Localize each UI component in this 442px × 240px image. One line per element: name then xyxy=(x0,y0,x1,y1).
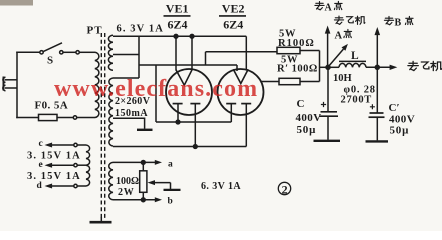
terminal d xyxy=(74,184,77,187)
core ground xyxy=(100,217,102,222)
junction xyxy=(176,120,180,124)
wire HT bottom lead xyxy=(113,146,246,148)
label 去乙机 top xyxy=(334,16,365,24)
junction xyxy=(141,198,145,202)
HT center tap xyxy=(113,118,145,129)
tube VE1 envelope xyxy=(166,69,212,115)
VE1 anode pin 2 xyxy=(191,36,193,70)
winding HT 2x260V xyxy=(109,78,113,146)
label 去A点 xyxy=(315,2,342,10)
resistor R' xyxy=(279,78,300,84)
junction xyxy=(190,34,194,38)
wire R riser xyxy=(205,52,207,65)
switch S xyxy=(40,43,63,54)
VE2 filament left xyxy=(226,103,236,105)
wire bottom xyxy=(16,117,38,119)
wire R-R' vertical xyxy=(319,51,321,82)
svg-text:A: A xyxy=(335,31,343,42)
plus C xyxy=(321,102,326,107)
wire a rail xyxy=(113,161,155,163)
winding 6.3V top xyxy=(108,35,113,70)
svg-text:6. 3V 1A: 6. 3V 1A xyxy=(117,23,164,34)
label A点 xyxy=(344,30,352,38)
VE1 anode pin xyxy=(175,36,177,70)
svg-text:2: 2 xyxy=(282,182,288,196)
wire to switch xyxy=(16,51,40,53)
choke L winding xyxy=(339,63,366,67)
svg-text:R′ 100Ω: R′ 100Ω xyxy=(277,64,318,75)
junction xyxy=(326,65,330,69)
wire filament bottom line xyxy=(156,121,231,123)
VE2 anode V xyxy=(233,69,248,83)
svg-text:50μ: 50μ xyxy=(390,124,410,136)
wire B point up arrow xyxy=(376,35,378,68)
mains plug xyxy=(3,77,17,91)
plus C2 xyxy=(370,104,375,109)
svg-text:6Z4: 6Z4 xyxy=(168,17,188,31)
label circled 2 xyxy=(278,182,290,194)
vertical x139 xyxy=(138,36,140,78)
tap arrow e xyxy=(52,164,74,166)
fuse F0.5A xyxy=(39,114,58,120)
wire y65 line xyxy=(139,64,237,66)
wire xyxy=(79,51,95,53)
svg-text:PT: PT xyxy=(87,25,103,37)
winding 3.15V e-d xyxy=(86,165,90,186)
VE2 anode pin xyxy=(236,65,238,71)
winding 6.3V bottom xyxy=(109,162,113,199)
wire 6.3V mid lead xyxy=(113,54,139,56)
svg-text:2W: 2W xyxy=(118,187,134,198)
ground bar C2 xyxy=(366,140,389,142)
svg-text:d: d xyxy=(37,181,43,191)
svg-text:A: A xyxy=(325,3,333,14)
VE2 cathode side wire xyxy=(261,81,279,83)
svg-text:2700T: 2700T xyxy=(341,94,373,105)
scan artifact top-left bar xyxy=(0,0,33,6)
wire HT top lead xyxy=(113,77,139,79)
label 去B点 xyxy=(384,16,413,24)
tap arrow c xyxy=(52,144,74,146)
svg-text:b: b xyxy=(168,197,173,207)
svg-text:B: B xyxy=(395,18,402,29)
wire diagonal to A xyxy=(328,49,344,67)
wire xyxy=(57,117,73,119)
terminal xyxy=(76,51,79,54)
svg-text:S: S xyxy=(47,55,53,67)
label 去乙机 right xyxy=(408,61,442,70)
VE1 filament left xyxy=(173,103,183,105)
capacitor C2 xyxy=(376,67,378,113)
fraction bar VE1 xyxy=(164,15,191,17)
chassis ground xyxy=(170,183,172,189)
tube VE2 envelope xyxy=(218,69,264,115)
svg-text:VE1: VE1 xyxy=(166,1,189,15)
VE1 filament right xyxy=(190,103,200,105)
wire anode line xyxy=(113,35,246,37)
svg-text:3. 15V 1A: 3. 15V 1A xyxy=(27,150,81,161)
svg-text:www.elecfans.com: www.elecfans.com xyxy=(54,76,258,102)
VE1 anode V xyxy=(176,70,192,85)
fraction bar VE2 xyxy=(219,15,246,17)
wire switch to primary xyxy=(63,51,76,53)
svg-text:6Z4: 6Z4 xyxy=(223,17,243,31)
svg-text:50μ: 50μ xyxy=(297,124,317,136)
ground bar C xyxy=(314,140,341,142)
wiper arrow xyxy=(148,180,156,185)
wire output xyxy=(328,66,339,68)
svg-text:100Ω: 100Ω xyxy=(116,176,139,187)
svg-text:6. 3V 1A: 6. 3V 1A xyxy=(201,181,241,192)
wire xyxy=(77,117,95,119)
choke L core bar xyxy=(339,60,366,62)
svg-text:400V: 400V xyxy=(296,112,322,124)
svg-text:C: C xyxy=(297,98,305,110)
junction xyxy=(193,145,197,149)
wire left vertical xyxy=(16,52,18,119)
resistor 100ohm 2W xyxy=(140,171,147,193)
svg-text:a: a xyxy=(168,160,173,170)
svg-text:L: L xyxy=(351,50,359,62)
ground bar xyxy=(137,129,153,131)
capacitor C xyxy=(327,67,329,111)
VE2 filament right xyxy=(241,103,251,105)
transformer core xyxy=(100,33,102,218)
tap arrow d xyxy=(52,185,74,187)
terminal c xyxy=(74,143,77,146)
wire tee xyxy=(320,66,329,68)
winding 3.15V c-e xyxy=(86,145,90,165)
svg-text:c: c xyxy=(39,139,43,149)
VE2 anode pin 2 xyxy=(245,36,247,70)
terminal xyxy=(73,116,76,119)
svg-text:R100Ω: R100Ω xyxy=(278,38,315,49)
wire xyxy=(300,81,320,83)
svg-text:C′: C′ xyxy=(389,102,400,114)
wire B+ up arrow xyxy=(327,33,329,67)
wire to R xyxy=(206,51,278,53)
junction xyxy=(174,34,178,38)
wire drop x156 xyxy=(155,65,157,122)
svg-text:150mA: 150mA xyxy=(115,108,148,119)
svg-text:10H: 10H xyxy=(333,73,352,84)
junction xyxy=(375,65,379,69)
resistor R xyxy=(277,47,300,53)
junction xyxy=(141,161,145,165)
svg-text:VE2: VE2 xyxy=(222,1,245,15)
wire xyxy=(300,50,320,52)
wire b rail xyxy=(113,199,155,201)
svg-text:3. 15V 1A: 3. 15V 1A xyxy=(27,171,81,182)
transformer primary winding xyxy=(95,52,99,117)
terminal e xyxy=(74,164,77,167)
